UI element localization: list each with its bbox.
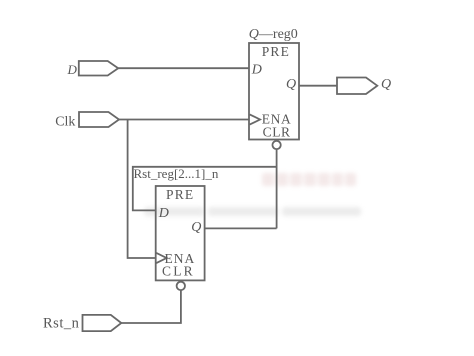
- wire U1 Q to output port: [299, 85, 337, 87]
- wire Rst_n port to U2 CLR bubble: [121, 290, 181, 323]
- svg-text:CLR: CLR: [263, 124, 291, 139]
- reg0 box: [249, 43, 299, 140]
- Rst_reg box: [156, 186, 205, 280]
- svg-text:Q—reg0: Q—reg0: [249, 27, 298, 42]
- wire feedback loop to U2 D: [133, 167, 277, 211]
- svg-text:PRE: PRE: [166, 187, 194, 202]
- input port D: [67, 61, 119, 77]
- svg-text:Rst_reg[2...1]_n: Rst_reg[2...1]_n: [134, 166, 219, 181]
- wire Clk port to reg0 ENA: [119, 119, 249, 121]
- svg-text:Q: Q: [191, 220, 201, 235]
- clock triangle ENA: [156, 253, 166, 263]
- CLR bubble on U1: [272, 141, 280, 149]
- CLR bubble on U2: [177, 282, 185, 290]
- flip-flop U1 Q~reg0: [249, 43, 299, 140]
- output port Q: [337, 77, 391, 94]
- svg-text:D: D: [67, 62, 78, 77]
- svg-text:D: D: [251, 62, 262, 77]
- svg-text:CLR: CLR: [162, 263, 195, 278]
- wire Clk branch down to Rst_reg ENA: [128, 120, 156, 259]
- wire U1 CLR bubble down: [276, 149, 278, 228]
- svg-text:Q: Q: [286, 77, 296, 92]
- svg-text:Q: Q: [381, 77, 391, 92]
- input port Rst_n: [43, 315, 121, 332]
- wire U2 Q output to vertical: [205, 227, 277, 229]
- svg-text:D: D: [158, 206, 169, 221]
- svg-text:Clk: Clk: [55, 114, 75, 129]
- svg-text:Rst_n: Rst_n: [43, 316, 80, 332]
- svg-text:PRE: PRE: [262, 44, 290, 59]
- flip-flop U2 Rst_reg: [156, 186, 205, 280]
- input port Clk: [55, 112, 119, 129]
- clock triangle ENA: [250, 114, 260, 124]
- wire D port to reg0 D pin: [118, 67, 249, 69]
